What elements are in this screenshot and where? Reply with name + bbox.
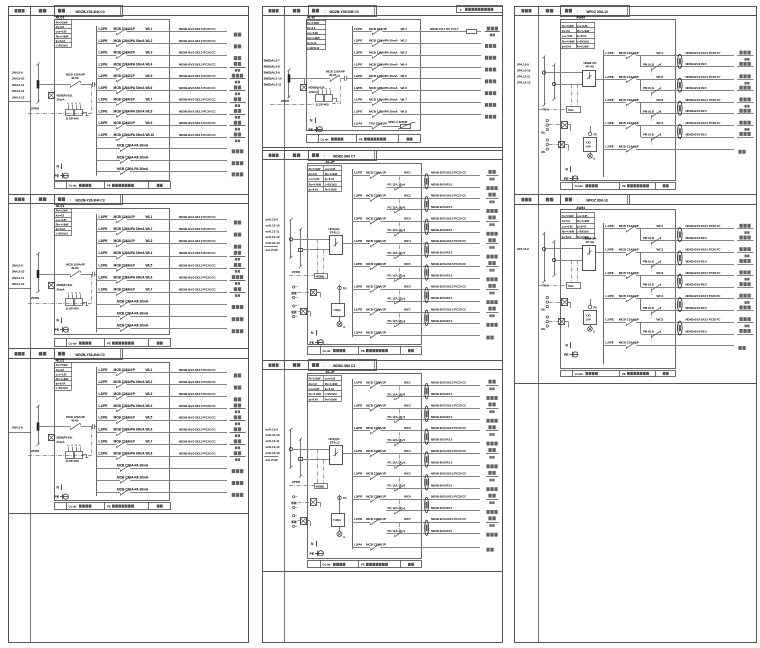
svg-text:PE: PE	[361, 349, 365, 353]
svg-text:AW64: AW64	[576, 16, 585, 20]
svg-text:Cu-tbr: Cu-tbr	[69, 504, 78, 508]
svg-text:WL3: WL3	[146, 51, 153, 55]
svg-text:MCB C20A-PA 30mA: MCB C20A-PA 30mA	[117, 324, 149, 328]
svg-text:cos=0.85: cos=0.85	[325, 377, 336, 381]
svg-text:AL01: AL01	[56, 358, 65, 362]
svg-text:mAL13-9: mAL13-9	[266, 218, 279, 222]
svg-text:NDB(P)-63L: NDB(P)-63L	[57, 93, 73, 97]
svg-text:2N4,3-9: 2N4,3-9	[12, 264, 23, 268]
svg-text:NDXB-BV3-3X2.5 PC20 FC: NDXB-BV3-3X2.5 PC20 FC	[686, 75, 722, 79]
svg-text:WL8: WL8	[401, 110, 408, 114]
svg-text:WL5: WL5	[401, 74, 408, 78]
svg-text:2P4W: 2P4W	[31, 449, 39, 453]
svg-text:MCB C20A/PA 30mA: MCB C20A/PA 30mA	[114, 227, 146, 231]
svg-text:WL3: WL3	[401, 51, 408, 55]
svg-text:MCB C20A/1P: MCB C20A/1P	[366, 239, 386, 243]
svg-text:MCB C20A/1P: MCB C20A/1P	[366, 403, 386, 407]
svg-text:L2/PE: L2/PE	[354, 110, 362, 114]
svg-text:MCB C20A/1P: MCB C20A/1P	[366, 216, 386, 220]
svg-text:L2/PE: L2/PE	[605, 144, 613, 148]
svg-text:MCB C16A/1P: MCB C16A/1P	[366, 330, 386, 334]
svg-text:MCB C20A-PA 30mA: MCB C20A-PA 30mA	[117, 156, 149, 160]
svg-text::: :	[324, 10, 325, 14]
svg-text:mAL13-9: mAL13-9	[266, 427, 279, 431]
svg-text:Ijs=8.4A: Ijs=8.4A	[576, 224, 586, 228]
svg-text:MCB C16A/1P: MCB C16A/1P	[114, 239, 136, 243]
svg-text:NDXB-BV3-3X2.5 PC20 CC: NDXB-BV3-3X2.5 PC20 CC	[179, 215, 216, 219]
svg-text:Cu-tbr: Cu-tbr	[575, 372, 584, 376]
svg-text:WL4: WL4	[146, 62, 153, 66]
svg-text:Pjs=4.4kW: Pjs=4.4kW	[562, 230, 575, 234]
svg-text:40/5(M): 40/5(M)	[316, 484, 325, 488]
svg-text:WC2: WC2	[404, 194, 411, 198]
svg-text:JLSP-400: JLSP-400	[66, 306, 79, 310]
svg-text:Pe=5.5kW: Pe=5.5kW	[307, 21, 319, 25]
svg-text:Pjs=4.4kW: Pjs=4.4kW	[56, 377, 69, 381]
svg-text:NDXB-BV3-R2.5: NDXB-BV3-R2.5	[431, 529, 453, 533]
svg-text:L2/PE: L2/PE	[354, 262, 362, 266]
svg-text:WL6: WL6	[146, 428, 153, 432]
svg-text:L=BV3x10: L=BV3x10	[56, 44, 69, 48]
svg-text:Kx=0.8: Kx=0.8	[309, 172, 318, 176]
svg-text:1BL: 1BL	[541, 328, 546, 331]
svg-text:MCB C20A/1P: MCB C20A/1P	[366, 381, 386, 385]
svg-text:NDXB-BV3-3X2.5 PC20 CC: NDXB-BV3-3X2.5 PC20 CC	[179, 133, 216, 137]
svg-text:PM 91.B: PM 91.B	[643, 86, 654, 90]
svg-text:L3/PE: L3/PE	[99, 86, 109, 90]
svg-text:Ijs=8.4A: Ijs=8.4A	[561, 45, 571, 49]
svg-text:Pe=5.5kW: Pe=5.5kW	[577, 45, 589, 49]
svg-text:MCB C20A/1P: MCB C20A/1P	[366, 285, 386, 289]
svg-text:mA.7L32: mA.7L32	[266, 248, 279, 252]
svg-text:NDXB-BV3-R2.5: NDXB-BV3-R2.5	[686, 62, 708, 66]
svg-text:mAL13-11: mAL13-11	[266, 439, 280, 443]
svg-text:L1/PE: L1/PE	[354, 27, 362, 31]
svg-text:40-63: 40-63	[329, 73, 337, 77]
svg-text:NDXB-BV3-3X2.5 PC20 CC: NDXB-BV3-3X2.5 PC20 CC	[179, 239, 216, 243]
svg-text:NDXB-BV3-R2.5: NDXB-BV3-R2.5	[686, 306, 708, 310]
svg-text:WC2: WC2	[656, 248, 663, 252]
svg-text:L1/PE: L1/PE	[605, 294, 613, 298]
svg-text:MCB C20A/1P: MCB C20A/1P	[366, 517, 386, 521]
svg-text:L3/PE: L3/PE	[99, 428, 109, 432]
svg-text:cos=0.85: cos=0.85	[562, 34, 573, 38]
svg-text:MCB C16A/1P: MCB C16A/1P	[114, 51, 136, 55]
svg-text:NDXB-BV3-R2.5: NDXB-BV3-R2.5	[431, 296, 453, 300]
svg-text::: :	[70, 198, 71, 202]
svg-text:MCB C20A/PA 30mA: MCB C20A/PA 30mA	[114, 275, 146, 279]
svg-text:L1/PE: L1/PE	[354, 62, 362, 66]
svg-text:NDXB-BV3-3X2.5 PC20 CC: NDXB-BV3-3X2.5 PC20 CC	[179, 368, 216, 372]
svg-text:NDXB-BV3-3X2.5 PC20 CC: NDXB-BV3-3X2.5 PC20 CC	[179, 275, 216, 279]
svg-text:mAL13-10: mAL13-10	[266, 223, 280, 227]
svg-text:L3/PE: L3/PE	[354, 426, 362, 430]
svg-text:Ijs=8.4A: Ijs=8.4A	[55, 39, 65, 43]
svg-text:WL1: WL1	[146, 27, 153, 31]
svg-text:MCB C20A/PA 30mA: MCB C20A/PA 30mA	[114, 133, 146, 137]
svg-text:mAL13-10: mAL13-10	[266, 433, 280, 437]
svg-text:MCB C20A/PA 30mA: MCB C20A/PA 30mA	[114, 86, 146, 90]
svg-text:AL-B: AL-B	[307, 15, 315, 19]
svg-text:WL2: WL2	[146, 380, 153, 384]
svg-text:3N(B)AL3-11: 3N(B)AL3-11	[264, 83, 282, 87]
svg-text:NDB(P)-63L: NDB(P)-63L	[57, 283, 73, 287]
svg-text:WL7: WL7	[146, 288, 153, 292]
svg-text:PE: PE	[361, 563, 365, 567]
svg-text:NDXB-BV3-R2.5: NDXB-BV3-R2.5	[686, 283, 708, 287]
svg-text:WC4: WC4	[404, 449, 411, 453]
svg-text:WC4: WC4	[656, 121, 663, 125]
svg-text:cos=0.85: cos=0.85	[56, 372, 67, 376]
svg-text:PE: PE	[55, 328, 60, 332]
svg-text:WC1: WC1	[404, 381, 411, 385]
svg-text:1BL: 1BL	[541, 308, 546, 311]
svg-text:MCB C20A-PA 30mA: MCB C20A-PA 30mA	[117, 464, 149, 468]
svg-text:3N(B)AL3-10: 3N(B)AL3-10	[264, 77, 282, 81]
svg-text:40x4: 40x4	[568, 285, 574, 288]
svg-text:L2/PE: L2/PE	[354, 39, 362, 43]
svg-text:cos=0.85: cos=0.85	[562, 224, 573, 228]
svg-text:WL6: WL6	[146, 275, 153, 279]
svg-text:b: b	[460, 8, 462, 12]
svg-text:AL01: AL01	[56, 16, 65, 20]
svg-text:L1/PE: L1/PE	[99, 368, 109, 372]
svg-text:Ijs=8.4A: Ijs=8.4A	[55, 382, 65, 386]
svg-text:NDXB-BV3-3X2.5 PC20 CC: NDXB-BV3-3X2.5 PC20 CC	[431, 285, 467, 289]
svg-text:L2/PE: L2/PE	[354, 74, 362, 78]
svg-text:L1/PE: L1/PE	[99, 98, 109, 102]
svg-text:NDXB-BV3-R2.5: NDXB-BV3-R2.5	[431, 392, 453, 396]
svg-text:NDXB-BV3-R2.5: NDXB-BV3-R2.5	[431, 228, 453, 232]
svg-text:cos=0.85: cos=0.85	[309, 177, 320, 181]
svg-text:NDXB-BV3-3X2.5 PC20 CC: NDXB-BV3-3X2.5 PC20 CC	[431, 494, 467, 498]
svg-text:1AP: 1AP	[586, 317, 591, 321]
svg-text:MCB 125A/PA 30mA: MCB 125A/PA 30mA	[369, 39, 398, 43]
svg-text:NDB(P)-63L: NDB(P)-63L	[57, 436, 73, 440]
svg-text:EF41.G: EF41.G	[330, 231, 340, 235]
svg-text:MCB C20A/PA 30mA: MCB C20A/PA 30mA	[114, 109, 146, 113]
svg-text:PM 91.B: PM 91.B	[643, 260, 654, 264]
svg-text:L3/PE: L3/PE	[354, 494, 362, 498]
svg-text:L1/PE: L1/PE	[605, 224, 613, 228]
svg-text:2N4,3-11: 2N4,3-11	[12, 276, 24, 280]
svg-text:L3/PE: L3/PE	[99, 239, 109, 243]
svg-text:1AP: 1AP	[586, 144, 591, 148]
svg-text:MCB C20A/1P: MCB C20A/1P	[366, 449, 386, 453]
svg-text:WL2: WL2	[146, 39, 153, 43]
svg-text:40-63: 40-63	[71, 266, 79, 270]
svg-text:JLSP-400: JLSP-400	[316, 102, 329, 106]
svg-text:SPD LY 320/3P: SPD LY 320/3P	[388, 120, 408, 124]
svg-text:Pe=5.5kW: Pe=5.5kW	[562, 24, 574, 28]
svg-text:2P4W: 2P4W	[281, 99, 289, 103]
svg-text:Pe=5.5kW: Pe=5.5kW	[309, 167, 321, 171]
svg-text:MCB C16A/1P: MCB C16A/1P	[114, 215, 136, 219]
svg-text:Cu-tbr: Cu-tbr	[575, 184, 584, 188]
svg-text:JLSP-400: JLSP-400	[66, 117, 79, 121]
svg-text:Cu-tbr: Cu-tbr	[323, 349, 332, 353]
svg-text:WC6: WC6	[404, 494, 411, 498]
svg-text:PM 91.B: PM 91.B	[643, 62, 654, 66]
svg-text:PE: PE	[310, 341, 315, 345]
svg-text:Kx=0.8: Kx=0.8	[309, 382, 318, 386]
svg-text:Kx=0.8: Kx=0.8	[56, 368, 65, 372]
svg-text:NDXB-BV3-3X2.5 PC20 FC: NDXB-BV3-3X2.5 PC20 FC	[686, 318, 722, 322]
svg-text:YJD: YJD	[586, 140, 591, 144]
svg-text:L1/PE: L1/PE	[99, 440, 109, 444]
svg-text:NDXB-BV3-R2.5: NDXB-BV3-R2.5	[686, 236, 708, 240]
svg-text:MCB C20A-PA 30mA: MCB C20A-PA 30mA	[117, 167, 149, 171]
svg-text:WL4: WL4	[146, 251, 153, 255]
svg-text:L1/PE: L1/PE	[354, 381, 362, 385]
svg-text:MCB C20A/PA 30mA: MCB C20A/PA 30mA	[114, 428, 146, 432]
svg-text:L2/PE: L2/PE	[354, 403, 362, 407]
svg-text:L3/A4: L3/A4	[354, 330, 363, 334]
svg-text:MCB C20A-PA 30mA: MCB C20A-PA 30mA	[117, 475, 149, 479]
svg-text:30mA: 30mA	[57, 287, 66, 291]
svg-text:PE: PE	[564, 177, 569, 181]
svg-text:WC2: WC2	[404, 403, 411, 407]
svg-text:NDXB-BV3-3X2.5 PC20 CC: NDXB-BV3-3X2.5 PC20 CC	[179, 39, 216, 43]
svg-text::: :	[577, 198, 578, 202]
svg-text:L1: L1	[317, 89, 319, 91]
svg-text:WL5: WL5	[146, 416, 153, 420]
svg-text:PE: PE	[309, 128, 314, 132]
svg-text:PM 91.B: PM 91.B	[643, 133, 654, 137]
svg-text:L2: L2	[71, 293, 73, 295]
svg-text:PE: PE	[55, 174, 60, 178]
svg-text:2P4W: 2P4W	[292, 270, 300, 274]
svg-text:NDXB CH-1 DC TL8-Y: NDXB CH-1 DC TL8-Y	[430, 27, 459, 31]
svg-text:NDXB-BV3-R2.5: NDXB-BV3-R2.5	[686, 132, 708, 136]
svg-text::: :	[70, 10, 71, 14]
svg-text:MCB C16A/1P: MCB C16A/1P	[114, 416, 136, 420]
svg-text::: :	[324, 154, 325, 158]
svg-text:Pjs=4.4kW: Pjs=4.4kW	[577, 29, 590, 33]
svg-text:YH3(A: YH3(A	[333, 518, 341, 522]
svg-text:MCB C20A-PA 30mA: MCB C20A-PA 30mA	[117, 312, 149, 316]
svg-text:Ijs=8.4A: Ijs=8.4A	[576, 34, 586, 38]
svg-text:Pjs=4.4kW: Pjs=4.4kW	[307, 36, 320, 40]
svg-text:MCB C20A/1P: MCB C20A/1P	[366, 426, 386, 430]
svg-text:MCB C20A/1P: MCB C20A/1P	[366, 262, 386, 266]
svg-text:2P4W: 2P4W	[31, 296, 39, 300]
svg-text:PG: PG	[343, 496, 347, 500]
svg-text:L3/PE: L3/PE	[354, 51, 362, 55]
svg-text:WL8: WL8	[146, 109, 153, 113]
svg-text:PE: PE	[55, 495, 60, 499]
svg-text:NDXB-BV3-R2.5: NDXB-BV3-R2.5	[431, 205, 453, 209]
svg-text:L1/PE: L1/PE	[605, 51, 613, 55]
svg-text:Ijs=8.4A: Ijs=8.4A	[307, 41, 317, 45]
svg-text:WC3: WC3	[656, 98, 663, 102]
svg-text:2P4W: 2P4W	[31, 107, 39, 111]
svg-text:L1/PE: L1/PE	[99, 62, 109, 66]
svg-text:2P4,13-12: 2P4,13-12	[517, 81, 531, 85]
svg-text:WC7: WC7	[404, 307, 411, 311]
svg-text:L3/PE: L3/PE	[99, 392, 109, 396]
svg-text:NDXB-BV3-3X2.5 PC20 CC: NDXB-BV3-3X2.5 PC20 CC	[431, 403, 467, 407]
svg-text:NDXB-BV3-3X2.5 PC20 CC: NDXB-BV3-3X2.5 PC20 CC	[431, 307, 467, 311]
svg-text:L1: L1	[67, 293, 69, 295]
svg-text:NDXB-BV3-R2.5: NDXB-BV3-R2.5	[431, 438, 453, 442]
svg-text:NDXB-BV3-3X2.5 PC20 CC: NDXB-BV3-3X2.5 PC20 CC	[179, 27, 216, 31]
svg-text:MCB C16A/1P: MCB C16A/1P	[114, 74, 136, 78]
svg-text:PG: PG	[594, 306, 598, 310]
svg-text:NDXB-BV3-3X2.5 PC20 CC: NDXB-BV3-3X2.5 PC20 CC	[179, 380, 216, 384]
svg-text:MCB 125A/PA 30mA: MCB 125A/PA 30mA	[369, 51, 398, 55]
svg-text:PM 91.B: PM 91.B	[643, 283, 654, 287]
svg-text:NDXB-BV3-3X2.5 PC20 CC: NDXB-BV3-3X2.5 PC20 CC	[179, 263, 216, 267]
svg-text:WL7: WL7	[401, 98, 408, 102]
svg-text:L2/PE: L2/PE	[99, 380, 109, 384]
svg-text:PE: PE	[622, 372, 626, 376]
svg-text:WC3: WC3	[404, 426, 411, 430]
svg-text:NDXB-BV3-3X2.5 PC20 CC: NDXB-BV3-3X2.5 PC20 CC	[179, 428, 216, 432]
svg-text:WC3: WC3	[404, 216, 411, 220]
svg-text:MCB C16A/1P: MCB C16A/1P	[114, 263, 136, 267]
svg-text:WDB2-3N6 C3: WDB2-3N6 C3	[333, 364, 355, 368]
svg-text:L1/PE: L1/PE	[99, 288, 109, 292]
svg-text:NDXB-BV3-R2.5: NDXB-BV3-R2.5	[431, 483, 453, 487]
svg-text:NDXB-BV3-3X2.5 PC20 CC: NDXB-BV3-3X2.5 PC20 CC	[431, 517, 467, 521]
svg-text:WC1: WC1	[656, 51, 663, 55]
svg-text:MCB C20A/PA 30mA: MCB C20A/PA 30mA	[114, 251, 146, 255]
svg-text:MCB C16A/1P: MCB C16A/1P	[114, 392, 136, 396]
svg-text:Pe=5.5kW: Pe=5.5kW	[325, 397, 337, 401]
svg-text:WDB2-3N6 C7: WDB2-3N6 C7	[333, 154, 355, 158]
svg-text:NDXB-BV3-R2.5: NDXB-BV3-R2.5	[431, 251, 453, 255]
svg-text:PE: PE	[107, 504, 111, 508]
svg-text:L=BV3x10: L=BV3x10	[307, 46, 320, 50]
svg-text:L2/PE: L2/PE	[605, 75, 613, 79]
svg-text:WL6: WL6	[146, 86, 153, 90]
svg-text:MCB C20A/PA 30mA: MCB C20A/PA 30mA	[114, 452, 146, 456]
svg-text:Pe=5.5kW: Pe=5.5kW	[562, 214, 574, 218]
svg-text:WC3: WC3	[656, 271, 663, 275]
svg-text:WC5: WC5	[404, 262, 411, 266]
svg-text:MCB 125A/PA 30mA: MCB 125A/PA 30mA	[369, 110, 398, 114]
svg-text:NDXB-BV3-3X2.5 PC20 CC: NDXB-BV3-3X2.5 PC20 CC	[431, 472, 467, 476]
svg-text:30mA: 30mA	[57, 440, 66, 444]
svg-text:L2/PE: L2/PE	[605, 248, 613, 252]
svg-text:MCB 125A/PA 30mA: MCB 125A/PA 30mA	[369, 62, 398, 66]
svg-text:L1: L1	[67, 445, 69, 447]
svg-text:1BL: 1BL	[541, 151, 546, 154]
svg-text:PM 91.B: PM 91.B	[643, 330, 654, 334]
svg-text:MCB C16A/1P: MCB C16A/1P	[114, 121, 136, 125]
svg-text:mAL13-12: mAL13-12	[266, 445, 280, 449]
svg-text:NDXB-BV3-3X2.5 PC20 CC: NDXB-BV3-3X2.5 PC20 CC	[179, 98, 216, 102]
svg-text:MCB C16A/1P: MCB C16A/1P	[114, 288, 136, 292]
svg-text:Cu-tbr: Cu-tbr	[69, 184, 78, 188]
svg-text:NDXB-BV3-3X2.5 PC20 FC: NDXB-BV3-3X2.5 PC20 FC	[686, 51, 722, 55]
svg-text:NDXB-BV3-3X2.5 PC20 CC: NDXB-BV3-3X2.5 PC20 CC	[431, 381, 467, 385]
svg-text:L1/PE: L1/PE	[354, 449, 362, 453]
svg-text:L=BV3x10: L=BV3x10	[577, 39, 590, 43]
svg-text:L3/A4: L3/A4	[354, 542, 363, 546]
svg-text:mA.7L32: mA.7L32	[266, 458, 279, 462]
svg-text:Pe=5.5kW: Pe=5.5kW	[56, 21, 68, 25]
svg-text:MCB 32A/4P: MCB 32A/4P	[369, 27, 387, 31]
svg-text:PG: PG	[343, 286, 347, 290]
svg-text:MCB C16A/1P: MCB C16A/1P	[114, 440, 136, 444]
svg-text:Pjs=4.4kW: Pjs=4.4kW	[56, 223, 69, 227]
svg-text:4P H.E: 4P H.E	[586, 240, 595, 244]
svg-text:L1/PE: L1/PE	[354, 171, 362, 175]
svg-text:Cu-tbr: Cu-tbr	[69, 341, 78, 345]
svg-text:cos=0.85: cos=0.85	[577, 24, 588, 28]
svg-text:MCB C20A/PA 30mA: MCB C20A/PA 30mA	[114, 380, 146, 384]
svg-text:NDXB-BV3-3X2.5 PC20 CC: NDXB-BV3-3X2.5 PC20 CC	[431, 216, 467, 220]
svg-text:WC5: WC5	[404, 472, 411, 476]
svg-text:NDXB-BV3-R2.5: NDXB-BV3-R2.5	[431, 274, 453, 278]
svg-text:WC1: WC1	[404, 171, 411, 175]
svg-text:NDXB-BV3-3X2.5 PC20 CC: NDXB-BV3-3X2.5 PC20 CC	[179, 288, 216, 292]
svg-text:WC4: WC4	[656, 294, 663, 298]
svg-text:NDXB-BV3-3X2.5 PC20 CC: NDXB-BV3-3X2.5 PC20 CC	[179, 51, 216, 55]
svg-text:NDXB-BV3-3X2.5 PC20 CC: NDXB-BV3-3X2.5 PC20 CC	[179, 109, 216, 113]
svg-text:Pjs=4.4kW: Pjs=4.4kW	[562, 39, 575, 43]
svg-text:1BL: 1BL	[541, 131, 546, 134]
svg-text:NDXB-BV3-R2.5: NDXB-BV3-R2.5	[431, 319, 453, 323]
svg-text:L1/PE: L1/PE	[99, 215, 109, 219]
svg-text:4P H.E: 4P H.E	[586, 64, 595, 68]
svg-text:JLSP-400: JLSP-400	[66, 459, 79, 463]
svg-text:PE: PE	[107, 184, 111, 188]
svg-text:WL3: WL3	[146, 239, 153, 243]
svg-text:WDZB-Y26/3XB C3: WDZB-Y26/3XB C3	[329, 10, 359, 14]
svg-text:NDXB-BV3-R2.5: NDXB-BV3-R2.5	[431, 182, 453, 186]
svg-text:L3/PE: L3/PE	[99, 51, 109, 55]
svg-text:L2/PE: L2/PE	[99, 263, 109, 267]
svg-text:Pjs=4.4kW: Pjs=4.4kW	[325, 382, 338, 386]
svg-text:WL6: WL6	[401, 86, 408, 90]
svg-text:Ijs=8.4A: Ijs=8.4A	[561, 235, 571, 239]
svg-text:MCB C20A/PA 30mA: MCB C20A/PA 30mA	[114, 39, 146, 43]
svg-text:2N4,3-11: 2N4,3-11	[12, 83, 24, 87]
svg-text:NDXB-BV3-R2.5: NDXB-BV3-R2.5	[686, 329, 708, 333]
svg-text:WL7: WL7	[146, 98, 153, 102]
svg-text:WL4: WL4	[401, 62, 408, 66]
svg-text:Pjs=4.4kW: Pjs=4.4kW	[309, 182, 322, 186]
svg-text:L3/PE: L3/PE	[605, 271, 613, 275]
svg-text:L2/PE: L2/PE	[99, 452, 109, 456]
svg-text:NDXB-BV3-3X2.5 PC20 CC: NDXB-BV3-3X2.5 PC20 CC	[431, 449, 467, 453]
svg-text:40-63: 40-63	[71, 418, 79, 422]
svg-text:Ijs=8.4A: Ijs=8.4A	[308, 188, 318, 192]
svg-text:NDXB-BV3-3X2.5 PC20 CC: NDXB-BV3-3X2.5 PC20 CC	[179, 452, 216, 456]
svg-text:PE: PE	[622, 184, 626, 188]
svg-text:2P4,13-9: 2P4,13-9	[517, 247, 529, 251]
svg-text:WL9: WL9	[146, 121, 153, 125]
svg-text:WL8: WL8	[146, 452, 153, 456]
svg-text:PE: PE	[310, 552, 315, 556]
svg-text:WL5: WL5	[146, 263, 153, 267]
svg-text:NDXB-BV3-3X2.5 PC20 CC: NDXB-BV3-3X2.5 PC20 CC	[179, 404, 216, 408]
svg-text:PG: PG	[594, 133, 598, 137]
svg-text:NDXB-BV3-3X2.5 PC20 CC: NDXB-BV3-3X2.5 PC20 CC	[179, 74, 216, 78]
svg-text:Ijs=8.4A: Ijs=8.4A	[324, 387, 334, 391]
svg-text:2N4,3-10: 2N4,3-10	[12, 77, 25, 81]
svg-text:WDZB-Y26-3N4 C3: WDZB-Y26-3N4 C3	[75, 353, 104, 357]
svg-text:NDXB-BV3-3X2.5 PC20 CC: NDXB-BV3-3X2.5 PC20 CC	[431, 262, 467, 266]
svg-text:NDXB-BV3-R2.5: NDXB-BV3-R2.5	[686, 86, 708, 90]
svg-text:WL1: WL1	[401, 27, 408, 31]
svg-text:WL2: WL2	[146, 227, 153, 231]
svg-text:WL1: WL1	[146, 215, 153, 219]
svg-text:2N4,3-12: 2N4,3-12	[12, 282, 25, 286]
